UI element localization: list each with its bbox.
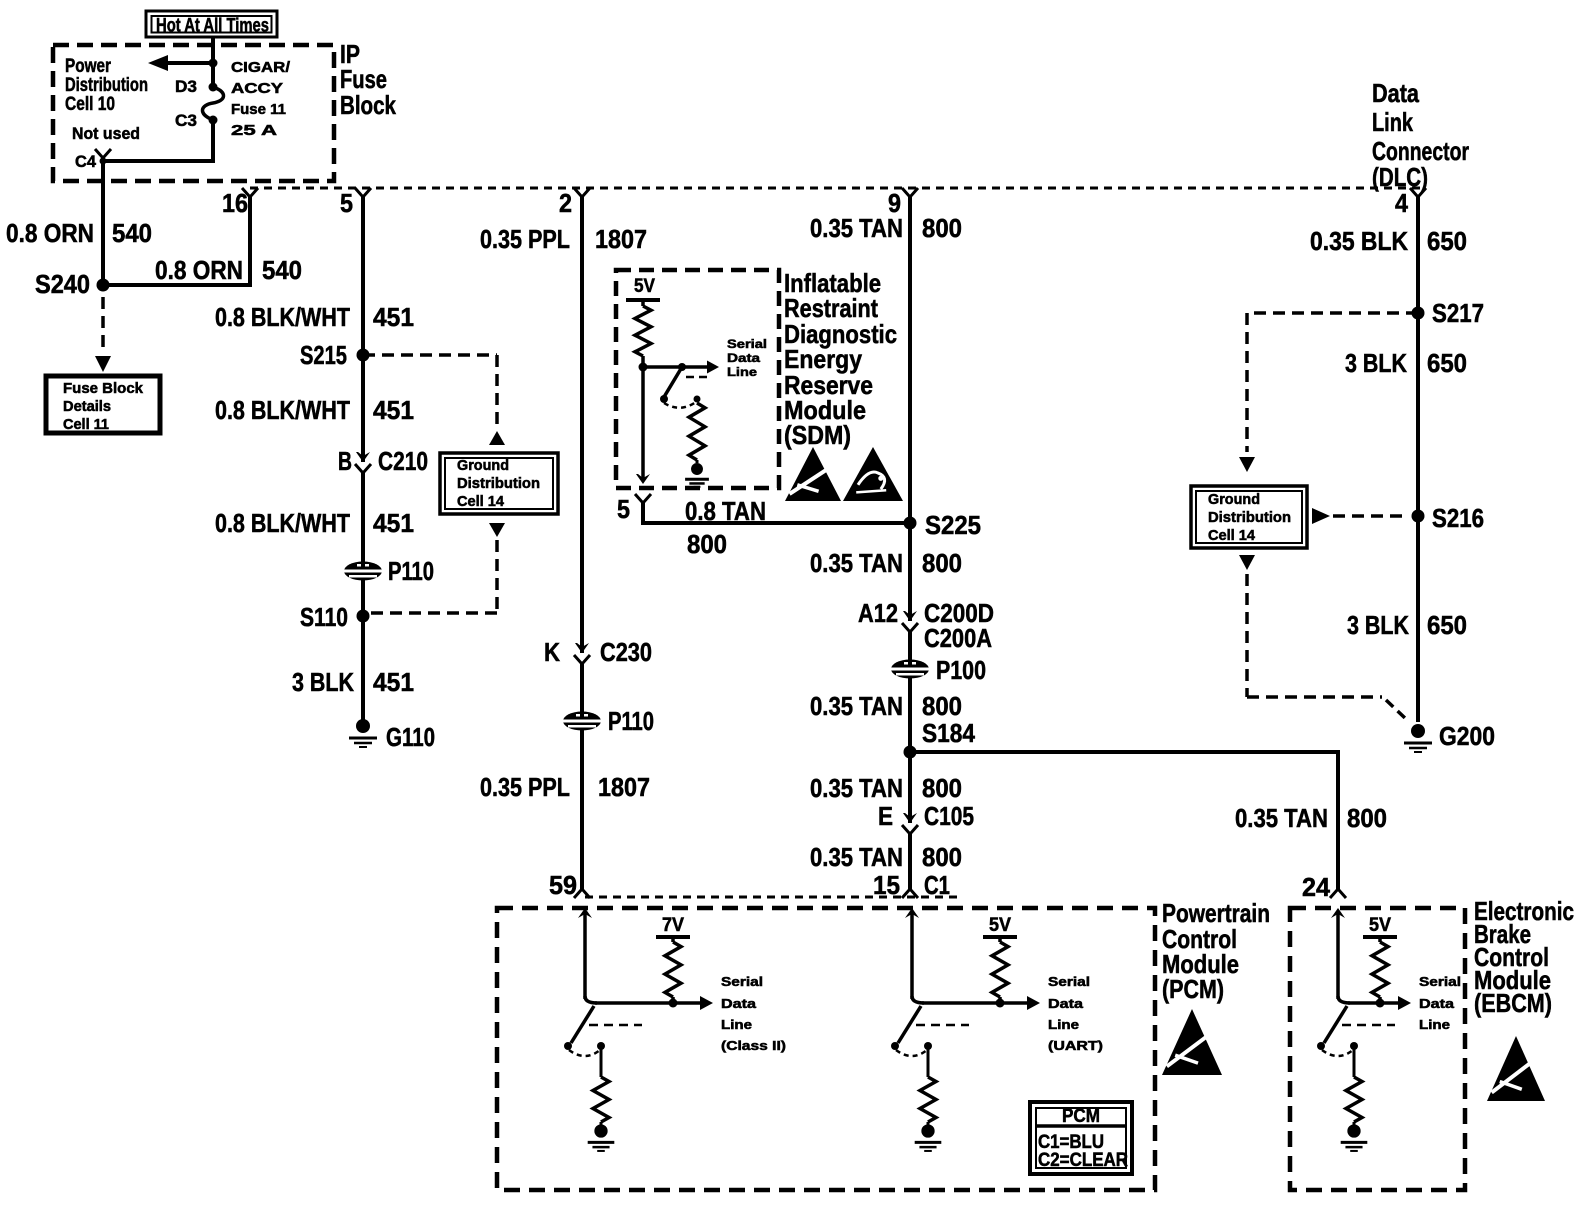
svg-text:0.35 TAN: 0.35 TAN [1235,803,1328,833]
resistor pull-up [992,942,1008,997]
in-line connector C210 (arrow into Y) [356,452,370,462]
svg-text:Line: Line [727,365,757,379]
svg-text:0.35 TAN: 0.35 TAN [810,691,903,721]
fuse F11 terminal D3 [209,83,218,92]
terminal C4 dot [100,158,107,165]
node S216 [1412,510,1425,523]
svg-text:800: 800 [922,548,962,578]
svg-text:1807: 1807 [598,772,650,802]
dashed wire Ground Distribution to S110 [495,540,499,613]
arrow into Fuse Block Details [95,356,111,372]
fuse F11 terminal C3 [209,116,218,125]
grommet P100 [891,660,929,679]
arrow serial data [700,996,713,1010]
wire resistor to junction (SDM) [641,356,645,367]
svg-text:5V: 5V [634,276,655,297]
node S217 [1412,307,1425,320]
svg-text:S240: S240 [35,269,90,299]
svg-text:0.35 TAN: 0.35 TAN [810,213,903,243]
svg-text:G200: G200 [1439,721,1495,751]
arrow serial data [1398,996,1411,1010]
ESD symbol EBCM [1487,1036,1545,1101]
svg-text:S215: S215 [300,340,347,370]
ground inside SDM [696,460,699,463]
svg-text:5V: 5V [989,915,1011,936]
svg-text:S216: S216 [1432,503,1484,533]
junction dot [669,999,678,1008]
top connector dashed bus line [250,187,1422,190]
svg-text:650: 650 [1427,226,1467,256]
junction dot [1376,999,1385,1008]
svg-text:Block: Block [340,90,396,120]
switch blade (SDM) [664,367,682,397]
svg-text:0.8 BLK/WHT: 0.8 BLK/WHT [215,302,350,332]
svg-text:C4: C4 [75,152,97,171]
switch blade [571,1006,594,1043]
svg-text:800: 800 [687,529,727,559]
switch fixed contact (SDM) [694,396,701,403]
node S225 [904,517,917,530]
ESD symbol SDM left [785,447,841,501]
dashed wire S215 to Ground Distribution [363,353,497,357]
IP Fuse Block dashed box [53,45,334,181]
resistor SDM pull-up [635,306,651,356]
node junction at D3 branch [209,59,218,68]
in-line connector C200D/C200A (arrow into Y) [903,611,917,621]
wire module entry down [910,914,914,999]
switch fixed contact [924,1042,932,1050]
svg-text:Details: Details [63,398,111,415]
PCM legend divider [1036,1124,1126,1128]
svg-text:A12: A12 [858,598,898,628]
pin 15 connector Y [902,889,918,898]
wire pin 5 down to C210 [361,197,365,462]
grommet P110 (pin5 column) [344,562,382,581]
arrow up into module at x=912 [905,908,919,918]
box PCM connector legend [1030,1102,1132,1174]
dashed wire S240 to Fuse Block Details [101,297,105,354]
switch blade [1324,1006,1347,1043]
svg-text:540: 540 [262,255,302,285]
ESD symbol PCM [1162,1009,1222,1075]
wire SDM pin 5 to S225 [643,503,910,523]
svg-text:Distribution: Distribution [457,475,540,492]
wire C210 down to G110 [361,473,365,722]
svg-text:0.35 TAN: 0.35 TAN [810,773,903,803]
svg-text:2: 2 [559,188,572,218]
box Hot At All Times [146,11,277,37]
svg-text:24: 24 [1302,872,1331,902]
arrow out of SDM pin 5 [636,474,650,484]
wire S240 to pin 16 [103,196,250,285]
svg-text:S225: S225 [925,510,981,540]
arrow down below Ground Distribution box (left) [489,523,505,537]
wire D3 stub [211,63,215,85]
svg-text:16: 16 [222,188,248,218]
box Ground Distribution Cell 14 (right) [1191,486,1307,548]
svg-text:(SDM): (SDM) [784,420,851,450]
in-line connector C105 (arrow into Y) [903,813,917,823]
svg-text:P110: P110 [388,556,434,586]
wire C105 down to pin 15 [908,834,912,889]
wire SDM serial data with arrow [643,365,710,369]
svg-text:800: 800 [922,691,962,721]
svg-text:4: 4 [1395,188,1408,218]
svg-text:Cell 11: Cell 11 [63,416,109,433]
wire pin 4 down to G200 [1416,197,1420,722]
resistor lower [1346,1077,1362,1122]
switch blade [898,1006,921,1043]
svg-text:Data: Data [1372,78,1419,108]
wire bend to serial data line [912,996,924,1003]
ground inside module [1347,1124,1360,1137]
svg-text:Data: Data [1048,996,1084,1011]
switch dashed guide [916,1024,969,1027]
svg-text:0.8 BLK/WHT: 0.8 BLK/WHT [215,508,350,538]
svg-text:(Class II): (Class II) [721,1038,786,1053]
resistor lower [920,1077,936,1122]
PCM connector fine dashed line [585,896,960,899]
box Ground Distribution Cell 14 (left) [440,453,558,514]
svg-text:Cell 10: Cell 10 [65,94,115,115]
svg-text:451: 451 [373,667,414,697]
svg-text:5: 5 [340,188,353,218]
svg-text:Ground: Ground [457,457,509,474]
wire C200 down to C105 [908,632,912,823]
pin 2 connector Y [574,188,590,197]
svg-text:800: 800 [922,773,962,803]
svg-text:3 BLK: 3 BLK [292,667,354,697]
wire C3 down and left to C4 [103,120,213,161]
arrow down into Ground Distribution box (right) [1239,457,1255,472]
svg-text:Fuse Block: Fuse Block [63,380,144,397]
svg-text:ACCY: ACCY [231,80,283,97]
svg-text:800: 800 [922,842,962,872]
node S215 [357,349,370,362]
pin 16 connector Y [242,188,258,197]
svg-text:C105: C105 [924,801,974,831]
svg-text:3 BLK: 3 BLK [1345,348,1407,378]
svg-text:Distribution: Distribution [65,75,148,96]
dashed wire S217 to Ground Distribution (right) [1247,311,1418,315]
svg-text:S217: S217 [1432,298,1484,328]
svg-text:G110: G110 [386,722,435,752]
svg-text:CIGAR/: CIGAR/ [231,59,291,76]
svg-text:0.8 ORN: 0.8 ORN [6,218,94,248]
svg-text:Cell 14: Cell 14 [457,493,505,510]
svg-text:0.35 BLK: 0.35 BLK [1310,226,1408,256]
switch travel arc dashed [896,1050,927,1056]
dashed wire Ground Distribution to G200 [1245,574,1249,697]
svg-text:C230: C230 [600,637,652,667]
SDM pin 5 connector Y [635,494,651,503]
svg-text:Power: Power [65,56,111,77]
ESD symbol SDM right [843,447,903,501]
svg-text:C2=CLEAR: C2=CLEAR [1038,1150,1128,1171]
arrow down below Ground Distribution box (right) [1239,555,1255,570]
pin 24 connector Y [1330,889,1346,898]
switch fixed contact [597,1042,605,1050]
svg-text:PCM: PCM [1062,1106,1100,1127]
svg-text:S110: S110 [300,602,348,632]
svg-text:P100: P100 [936,655,986,685]
power bar 5V [1363,935,1397,939]
svg-text:1807: 1807 [595,224,647,254]
svg-text:25 A: 25 A [231,122,277,139]
svg-text:0.35 PPL: 0.35 PPL [480,772,570,802]
wire bend to serial data line [585,996,597,1003]
dashed wire Ground Distribution to S216 [1333,514,1408,518]
svg-text:451: 451 [373,508,414,538]
wire bend to serial data line [1338,996,1350,1003]
in-line connector C230 (arrow into Y) [575,643,589,653]
box Fuse Block Details Cell 11 [46,376,160,433]
svg-text:800: 800 [1347,803,1387,833]
wire pin 9 down to C200 [908,197,912,621]
node S184 [904,746,917,759]
svg-text:3 BLK: 3 BLK [1347,610,1409,640]
svg-text:650: 650 [1427,610,1467,640]
pin 5 connector Y [355,188,371,197]
arrow right from Ground Distribution to S216 [1312,508,1330,524]
svg-text:(PCM): (PCM) [1162,974,1224,1004]
svg-text:451: 451 [373,395,414,425]
ground inside module [921,1124,934,1137]
svg-text:5V: 5V [1369,915,1391,936]
svg-text:59: 59 [549,870,577,900]
svg-text:K: K [544,637,560,667]
svg-text:Distribution: Distribution [1208,509,1291,526]
svg-text:B: B [338,446,352,476]
wire contact to resistor [1353,1046,1356,1077]
svg-text:Serial: Serial [1419,974,1461,989]
switch dashed guide (SDM) [686,376,707,379]
wire contact to resistor [927,1046,930,1077]
svg-text:5: 5 [617,494,630,524]
svg-text:Ground: Ground [1208,491,1260,508]
arrow up into module at x=1338 [1331,908,1345,918]
power bar 5V [983,935,1017,939]
ground G200 [1411,724,1425,738]
svg-text:S184: S184 [922,718,975,748]
resistor lower [593,1077,609,1122]
svg-text:Serial: Serial [727,337,767,351]
junction dot [996,999,1005,1008]
svg-text:C3: C3 [175,111,197,130]
svg-text:D3: D3 [175,77,197,96]
switch fixed contact [1350,1042,1358,1050]
EBCM dashed box [1290,908,1465,1190]
svg-text:Not used: Not used [72,124,140,143]
svg-text:P110: P110 [608,706,654,736]
svg-text:(EBCM): (EBCM) [1474,988,1552,1018]
svg-text:Line: Line [721,1017,752,1032]
switch travel arc dashed [569,1050,600,1056]
switch travel arc dashed (SDM) [664,402,696,408]
svg-text:0.35 PPL: 0.35 PPL [480,224,570,254]
wire SDM junction down to pin 5 [641,367,645,480]
svg-text:650: 650 [1427,348,1467,378]
pin 59 connector Y [574,889,590,898]
svg-text:Data: Data [727,351,760,365]
switch travel arc dashed [1322,1050,1353,1056]
svg-text:Line: Line [1048,1017,1079,1032]
ground inside module [594,1124,607,1137]
svg-text:(UART): (UART) [1048,1038,1103,1053]
wire pin 2 down to C230 [580,197,584,653]
pin 4 connector Y [1410,188,1426,197]
pin 9 connector Y [902,188,918,197]
resistor pull-up [665,942,681,997]
svg-text:7V: 7V [662,915,684,936]
wire C230 down to pin 59 [580,664,584,889]
svg-text:800: 800 [922,213,962,243]
wire from Hot At All Times into fuse block [211,37,215,63]
svg-text:0.8 BLK/WHT: 0.8 BLK/WHT [215,395,350,425]
wire arrow to Power Distribution Cell 10 [168,61,213,65]
resistor pull-up [1372,942,1388,997]
svg-text:Hot At All Times: Hot At All Times [156,16,269,37]
arrow serial data [1027,996,1040,1010]
svg-text:0.35 TAN: 0.35 TAN [810,548,903,578]
wire module entry down [583,914,587,999]
svg-text:C200A: C200A [924,623,992,653]
switch pivot dot (SDM) [678,363,686,371]
svg-text:451: 451 [373,302,414,332]
svg-text:Serial: Serial [721,974,763,989]
fuse F11 element [202,87,223,120]
svg-text:Line: Line [1419,1017,1450,1032]
power bar 5V (SDM) [626,298,660,302]
svg-text:Link: Link [1372,107,1413,137]
ground G110 [356,719,370,733]
SDM dashed box [616,270,779,488]
node SDM junction [639,363,648,372]
svg-text:Cell 14: Cell 14 [1208,527,1256,544]
switch dashed guide [589,1024,642,1027]
svg-text:540: 540 [112,218,152,248]
PCM dashed box [497,908,1155,1190]
svg-text:Serial: Serial [1048,974,1090,989]
svg-text:C210: C210 [378,446,428,476]
wire C4 to S240 [101,161,105,285]
node S240 [97,279,110,292]
power bar 7V [656,935,690,939]
grommet P110 (pin2 column) [563,712,601,731]
svg-text:Data: Data [1419,996,1455,1011]
node S110 [357,610,370,623]
svg-text:Fuse 11: Fuse 11 [231,101,286,118]
wire contact to resistor [600,1046,603,1077]
arrow up into module at x=585 [578,908,592,918]
arrow up above Ground Distribution box [489,431,505,445]
svg-text:0.8 ORN: 0.8 ORN [155,255,243,285]
svg-text:0.35 TAN: 0.35 TAN [810,842,903,872]
connector cavity Not used (Y symbol) [95,149,111,158]
switch dashed guide [1342,1024,1395,1027]
resistor SDM lower [689,403,705,460]
svg-text:E: E [878,801,893,831]
wire S184 branch to pin 24 [910,752,1338,889]
svg-text:Data: Data [721,996,757,1011]
wire module entry down [1336,914,1340,999]
